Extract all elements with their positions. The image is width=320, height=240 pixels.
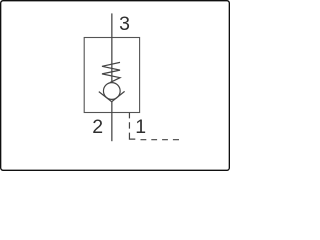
check ball — [103, 83, 120, 100]
svg-text:2: 2 — [92, 116, 103, 138]
valve body box — [84, 38, 139, 113]
valve seat — [99, 91, 125, 101]
pilot line dashed vertical (port 1) — [128, 113, 130, 129]
svg-text:3: 3 — [119, 13, 130, 35]
spring — [102, 62, 120, 82]
wire: port 3 line (top, through spring to ball) — [111, 13, 113, 83]
pilot line corner dash — [129, 133, 135, 140]
svg-text:1: 1 — [135, 116, 146, 138]
pilot line dashed horizontal — [141, 139, 180, 141]
border frame — [1, 1, 230, 171]
wire: port 2 line (seat apex down to below box) — [111, 102, 113, 142]
